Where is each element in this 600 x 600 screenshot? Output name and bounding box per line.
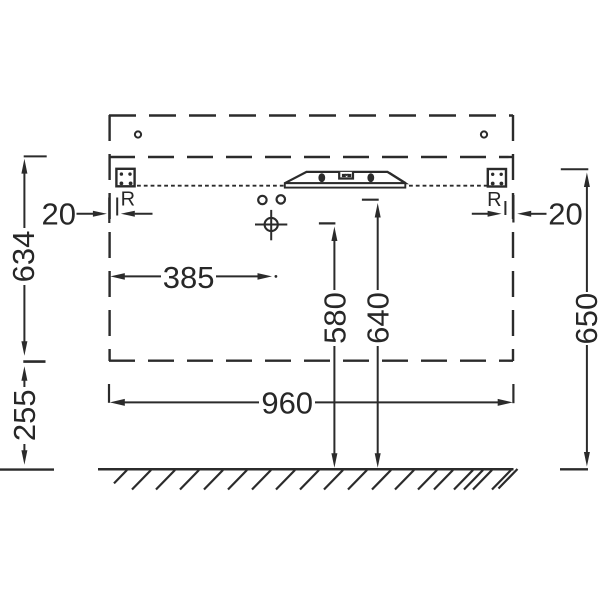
svg-text:634: 634 bbox=[6, 231, 41, 283]
dimension 385: line left bbox=[124, 275, 161, 277]
svg-text:640: 640 bbox=[361, 292, 396, 344]
svg-text:R: R bbox=[121, 188, 135, 210]
dimension 385: end dot bbox=[275, 275, 278, 278]
dimension 650: line lower bbox=[586, 345, 588, 454]
dimension 640: down arrow bbox=[375, 453, 381, 468]
dimension 650: line upper bbox=[586, 184, 588, 292]
dimension 634: down arrow bbox=[21, 341, 27, 356]
rail center notch bbox=[339, 172, 353, 179]
basin drain crosshair circle bbox=[265, 218, 278, 231]
dimension 255: down arrow bbox=[21, 450, 27, 465]
dimension 580: up arrow bbox=[331, 227, 337, 242]
mounting rail body (trapezoid) bbox=[285, 172, 406, 183]
dimension 20 left: line bbox=[77, 213, 95, 215]
dimension 960: right tick bbox=[512, 384, 514, 403]
dimension 650: top tick bbox=[561, 168, 589, 170]
svg-text:580: 580 bbox=[317, 292, 352, 344]
cabinet outline right edge (dashed) bbox=[512, 115, 514, 361]
right bracket screw holes bbox=[491, 173, 503, 186]
svg-text:960: 960 bbox=[261, 385, 313, 420]
dimension 385: right arrow bbox=[258, 273, 273, 280]
svg-text:255: 255 bbox=[7, 389, 42, 441]
cabinet outline top edge (dashed) bbox=[109, 114, 513, 116]
basin drain crosshair lines bbox=[255, 224, 287, 226]
mounting rail base slab bbox=[285, 183, 406, 187]
dimension 640: line lower bbox=[377, 346, 379, 456]
dimension 580: line lower bbox=[333, 346, 335, 456]
dimension 640: up arrow bbox=[375, 203, 381, 218]
dimension 20 right: line bbox=[472, 213, 489, 215]
floor reference line left bbox=[0, 468, 54, 470]
dimension 385: line right bbox=[216, 275, 259, 277]
floor line bbox=[98, 468, 514, 471]
dimension 960: right arrow bbox=[498, 399, 513, 406]
dimension 650: up arrow bbox=[584, 173, 590, 188]
dimension 255: line lower bbox=[23, 444, 25, 454]
dimension 960: line right bbox=[315, 401, 499, 403]
dimension 580: down arrow bbox=[331, 453, 337, 468]
faucet hole left bbox=[258, 196, 266, 204]
svg-text:R: R bbox=[487, 189, 501, 211]
faucet hole right bbox=[277, 195, 285, 203]
svg-text:20: 20 bbox=[548, 196, 582, 231]
rail screw right bbox=[367, 173, 374, 182]
svg-text:650: 650 bbox=[569, 293, 600, 345]
dimension 255: up arrow bbox=[21, 366, 27, 381]
dimension 634: line upper bbox=[23, 170, 25, 228]
dimension 634: up arrow bbox=[21, 159, 27, 174]
dimension 20 left: short tick bbox=[116, 198, 118, 216]
dimension 650: down arrow bbox=[584, 452, 590, 467]
dimension 634: line lower bbox=[23, 285, 25, 345]
cabinet outline left edge (dashed) bbox=[108, 115, 110, 361]
floor hatching bbox=[114, 469, 518, 490]
right top hole circle bbox=[481, 131, 487, 137]
dimension 634: mid tick bbox=[23, 360, 45, 363]
dimension 640: line upper bbox=[377, 213, 379, 290]
cabinet top divider line (dashed) bbox=[109, 156, 513, 158]
left bracket screw holes bbox=[120, 172, 133, 185]
dimension 580: top bar bbox=[319, 222, 336, 224]
left bracket plate bbox=[116, 169, 134, 187]
dimension 650: bottom tick bbox=[560, 468, 588, 470]
right bracket plate bbox=[488, 169, 506, 187]
dimension 634: top tick bbox=[24, 155, 47, 157]
dimension 20 right: tall tick bbox=[512, 195, 514, 223]
mounting rail end cap line bbox=[390, 173, 406, 183]
dimension 20 right: left-pointing arrow bbox=[517, 211, 531, 217]
wall mounting dotted line bbox=[137, 185, 489, 187]
dimension 20 left: right-pointing arrow bbox=[93, 211, 107, 217]
dimension 960: left tick bbox=[108, 384, 110, 403]
dimension 20 left: left-pointing arrow bbox=[121, 211, 135, 217]
rail screw left bbox=[318, 173, 325, 182]
dimension 640: top bar bbox=[362, 199, 379, 201]
dimension 580: line upper bbox=[333, 237, 335, 290]
dimension 20 right: short tick bbox=[504, 201, 506, 215]
svg-text:385: 385 bbox=[163, 260, 215, 295]
dimension 960: line left bbox=[124, 401, 259, 403]
left top hole circle bbox=[135, 131, 141, 137]
dimension 960: left arrow bbox=[110, 399, 125, 406]
svg-text:20: 20 bbox=[42, 197, 76, 232]
dimension 20 left: tall tick bbox=[108, 198, 110, 224]
dimension 385: left arrow bbox=[110, 273, 125, 280]
cabinet outline bottom edge (dashed) bbox=[109, 360, 513, 362]
rail notch marks bbox=[342, 174, 346, 177]
dimension 20 right: right-pointing arrow bbox=[488, 211, 502, 217]
